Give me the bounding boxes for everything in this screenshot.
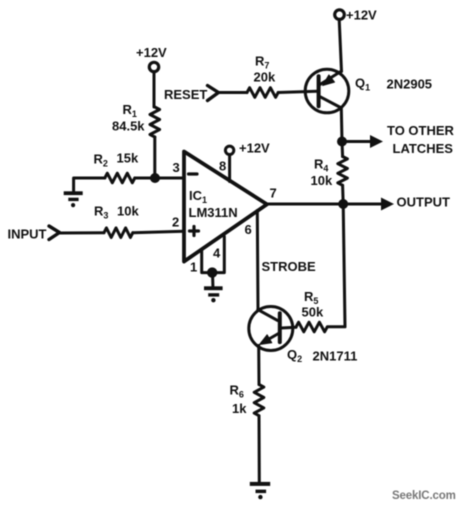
wire: Q2 base to R5 left	[282, 326, 297, 330]
op-amp U1 LM311N triangle	[184, 152, 267, 262]
resistor R6 1k (vertical zigzag)	[254, 385, 264, 416]
svg-text:INPUT: INPUT	[8, 227, 47, 242]
wire: output node down to R5 right corner	[328, 204, 346, 327]
arrowhead TO OTHER LATCHES	[370, 135, 383, 148]
op-amp plus sign (pin 2 input)	[190, 227, 199, 236]
ground (below op-amp)	[204, 286, 223, 302]
svg-text:1: 1	[190, 260, 197, 275]
Q2 emitter arrow (NPN, pointing out)	[260, 335, 272, 345]
ground (left of R2)	[64, 191, 83, 207]
svg-text:IC1: IC1	[189, 188, 207, 205]
Q1 emitter arrow (PNP, pointing to base)	[323, 75, 335, 86]
svg-text:+12V: +12V	[136, 45, 167, 60]
svg-text:LM311N: LM311N	[189, 205, 238, 220]
svg-text:3: 3	[173, 160, 180, 175]
svg-text:+12V: +12V	[346, 8, 377, 23]
resistor R2 15k (horizontal zigzag)	[105, 173, 135, 183]
svg-text:10k: 10k	[117, 204, 139, 219]
resistor R7 20k (horizontal zigzag)	[247, 88, 278, 98]
wire: R1 bottom to node A	[153, 137, 156, 178]
wire: R2 right through node A to op-amp pin 3	[135, 177, 184, 180]
wire: +12V terminal to R1 top	[153, 72, 156, 107]
wire: Q1 collector to latches node	[340, 109, 344, 142]
wire: RESET to R7 left	[219, 91, 248, 94]
wire: latches node to R4 top	[341, 142, 345, 157]
output node junction dot	[338, 199, 348, 209]
svg-text:2N2905: 2N2905	[387, 77, 433, 92]
wire: pin 4 from op-amp bottom edge to ground node	[213, 237, 224, 273]
wire: ground corner to R2 left	[74, 178, 105, 192]
resistor R5 50k (horizontal zigzag)	[296, 322, 327, 332]
svg-text:15k: 15k	[117, 151, 139, 166]
wire: INPUT to R3 left	[60, 231, 105, 234]
wire: pin 8 to +12V terminal	[228, 155, 231, 182]
svg-text:SeekIC.com: SeekIC.com	[392, 490, 456, 502]
svg-text:6: 6	[245, 222, 252, 237]
svg-text:1k: 1k	[232, 401, 247, 416]
wire: op-amp pin 6 (strobe) down to Q2 collector	[256, 211, 260, 311]
svg-text:R3: R3	[94, 204, 108, 221]
Q2 base bar	[278, 313, 282, 342]
op-amp minus sign (pin 3 input)	[189, 172, 198, 175]
svg-text:+12V: +12V	[239, 141, 270, 156]
resistor R4 10k (vertical zigzag)	[338, 157, 348, 186]
svg-text:7: 7	[270, 186, 277, 201]
wire: R3 right to op-amp pin 2	[133, 231, 184, 232]
Q1 base bar	[317, 76, 321, 106]
wire: R4 bottom to output node	[341, 185, 345, 204]
svg-text:R6: R6	[230, 383, 244, 400]
Q1 collector diagonal	[320, 97, 341, 108]
input chevron arrow	[49, 226, 60, 240]
ground node junction dot (pins 1,4)	[207, 267, 217, 277]
svg-text:RESET: RESET	[164, 87, 207, 102]
svg-text:84.5k: 84.5k	[112, 119, 145, 134]
wire: op-amp pin 7 to OUTPUT arrow	[267, 203, 381, 206]
wire: +12V terminal to Q1 emitter	[339, 20, 341, 72]
wire: R7 right to Q1 base	[278, 91, 317, 92]
power terminal +12V (top right)	[335, 10, 345, 20]
Q2 collector diagonal	[258, 310, 278, 321]
svg-text:Q2: Q2	[287, 347, 302, 364]
Q2 emitter diagonal	[262, 334, 279, 344]
wire: ground node to ground symbol	[211, 273, 214, 286]
svg-text:TO OTHER: TO OTHER	[387, 123, 455, 138]
arrowhead OUTPUT	[381, 198, 394, 211]
node A junction dot	[150, 173, 160, 183]
resistor R3 10k (horizontal zigzag)	[104, 228, 133, 238]
Q1 emitter diagonal (to +12V)	[320, 71, 342, 85]
svg-text:2: 2	[172, 215, 179, 230]
transistor Q2 2N1711 (NPN) circle	[249, 307, 293, 351]
power terminal +12V (top left)	[149, 62, 158, 71]
svg-text:50k: 50k	[302, 305, 324, 320]
transistor Q1 2N2905 (PNP) circle	[305, 69, 349, 113]
svg-text:STROBE: STROBE	[262, 259, 317, 274]
svg-text:R1: R1	[123, 102, 137, 119]
svg-text:8: 8	[219, 159, 226, 174]
svg-text:R2: R2	[94, 152, 108, 169]
power terminal +12V (pin 8)	[225, 146, 233, 154]
wire: pin 1 from op-amp bottom edge to ground node	[202, 250, 211, 273]
svg-text:R5: R5	[304, 289, 318, 306]
svg-text:Q1: Q1	[355, 76, 370, 93]
wire: latches node to arrow	[342, 140, 372, 143]
svg-text:2N1711: 2N1711	[313, 349, 358, 364]
svg-text:OUTPUT: OUTPUT	[397, 195, 451, 210]
resistor R1 84.5k (vertical zigzag)	[150, 107, 160, 137]
svg-text:4: 4	[213, 246, 221, 261]
latches node junction dot	[337, 137, 347, 147]
svg-text:20k: 20k	[254, 70, 276, 85]
svg-text:R7: R7	[255, 54, 269, 71]
wire: Q2 emitter down to R6 top	[257, 346, 260, 385]
svg-text:R4: R4	[314, 157, 328, 174]
reset chevron arrow	[208, 86, 219, 101]
ground (bottom, below R6)	[250, 482, 270, 499]
svg-text:10k: 10k	[311, 173, 333, 188]
wire: R6 bottom to bottom ground	[258, 416, 261, 482]
svg-text:LATCHES: LATCHES	[393, 141, 454, 156]
